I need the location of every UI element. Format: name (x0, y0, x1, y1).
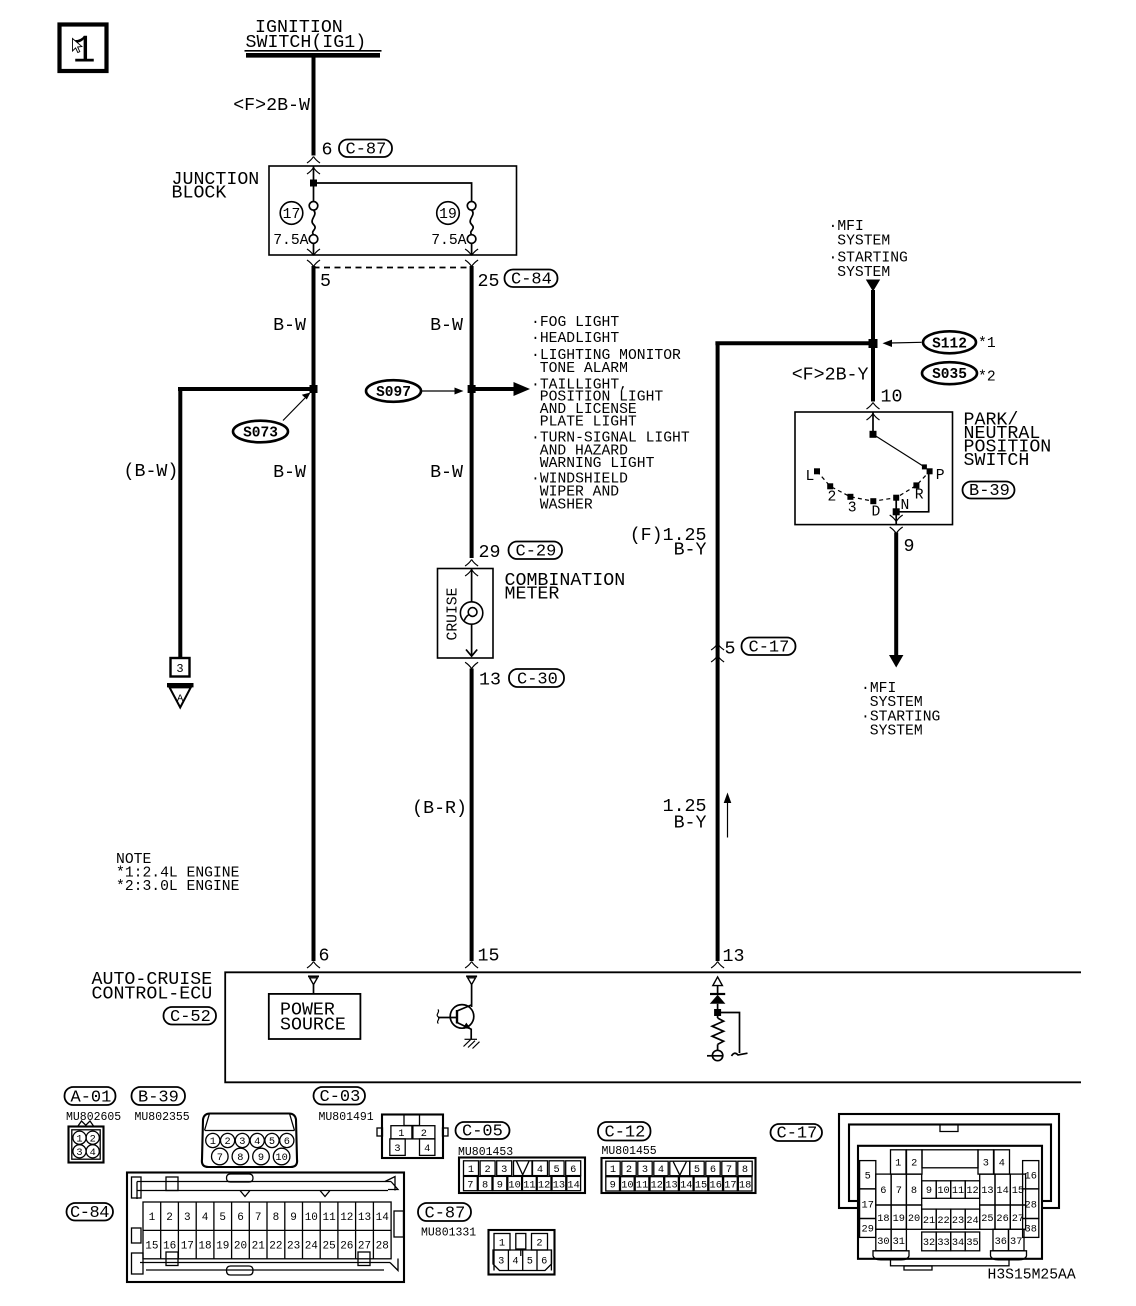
svg-text:B-Y: B-Y (674, 541, 707, 561)
svg-text:11: 11 (523, 1179, 535, 1191)
svg-text:5: 5 (320, 272, 331, 292)
svg-text:6: 6 (284, 1136, 290, 1148)
svg-text:13: 13 (723, 947, 745, 967)
svg-text:22: 22 (937, 1215, 949, 1227)
svg-text:1: 1 (149, 1212, 156, 1224)
svg-text:9: 9 (258, 1152, 264, 1164)
svg-text:5: 5 (219, 1212, 226, 1224)
svg-text:MU802355: MU802355 (135, 1111, 190, 1124)
svg-text:C-84: C-84 (511, 271, 552, 290)
svg-text:4: 4 (202, 1212, 209, 1224)
svg-text:34: 34 (952, 1237, 964, 1249)
wire N node to P contact (896, 471, 929, 512)
svg-text:METER: METER (505, 585, 560, 605)
connector B-39 drawing (202, 1114, 297, 1168)
svg-text:WARNING LIGHT: WARNING LIGHT (540, 456, 655, 472)
svg-text:3: 3 (394, 1143, 400, 1155)
svg-text:4: 4 (658, 1164, 664, 1176)
svg-text:28: 28 (376, 1241, 389, 1253)
node junction block split (310, 180, 317, 187)
svg-text:16: 16 (1025, 1171, 1037, 1183)
lighting system list (531, 315, 690, 513)
contact R (913, 482, 919, 488)
svg-text:1: 1 (210, 1136, 216, 1148)
svg-text:13: 13 (358, 1212, 371, 1224)
svg-text:17: 17 (724, 1180, 736, 1192)
svg-text:C-17: C-17 (749, 639, 790, 658)
svg-text:1: 1 (468, 1164, 474, 1176)
svg-text:PLATE LIGHT: PLATE LIGHT (540, 415, 637, 431)
svg-text:MU801491: MU801491 (319, 1111, 374, 1124)
wire B-W from fuse 19 down to combination meter (470, 266, 474, 558)
svg-text:9: 9 (290, 1212, 297, 1224)
svg-text:25: 25 (981, 1213, 993, 1225)
wire to fuse 19 (314, 183, 472, 202)
wire B-W from fuse 17 down to ECU pin 6 (312, 266, 316, 961)
svg-text:S035: S035 (932, 367, 967, 383)
feed arrow from MFI/starting system (866, 280, 880, 292)
svg-text:9: 9 (904, 537, 915, 557)
svg-text:C-05: C-05 (462, 1123, 503, 1142)
svg-text:<F>2B-Y: <F>2B-Y (792, 366, 869, 386)
svg-text:35: 35 (966, 1237, 978, 1249)
wire to transistor collector (471, 985, 473, 1007)
svg-text:*2: *2 (978, 370, 996, 386)
svg-text:H3S15M25AA: H3S15M25AA (988, 1268, 1076, 1284)
svg-text:7: 7 (896, 1185, 902, 1197)
svg-text:1: 1 (895, 1158, 901, 1170)
svg-text:C-87: C-87 (346, 141, 387, 160)
svg-text:MU802605: MU802605 (66, 1111, 121, 1124)
svg-text:3: 3 (983, 1158, 989, 1170)
svg-text:31: 31 (893, 1236, 905, 1248)
cruise indicator lamp (460, 602, 482, 624)
fuse 19 symbol (467, 202, 476, 256)
svg-text:20: 20 (234, 1241, 247, 1253)
node diode-resistor junction (714, 1009, 721, 1016)
svg-text:12: 12 (651, 1180, 663, 1192)
svg-text:5: 5 (725, 640, 736, 660)
wire (B-R) from meter to ECU pin 15 (470, 669, 474, 962)
svg-text:2: 2 (536, 1237, 542, 1249)
svg-text:25: 25 (478, 272, 500, 292)
svg-text:4: 4 (537, 1164, 543, 1176)
flow arrow in meter (466, 650, 477, 657)
wire to power source (313, 985, 315, 994)
park/neutral position switch box (795, 412, 953, 525)
svg-text:10: 10 (881, 388, 903, 408)
page number box 1 (60, 25, 107, 74)
diode D1 (710, 986, 726, 1018)
svg-text:10: 10 (621, 1180, 633, 1192)
svg-text:7.5A: 7.5A (273, 233, 308, 249)
svg-text:11: 11 (952, 1185, 964, 1197)
connector C-84 drawing (127, 1173, 404, 1283)
svg-text:13: 13 (479, 671, 501, 691)
junction block box (269, 166, 517, 255)
svg-text:19: 19 (893, 1213, 905, 1225)
svg-text:13: 13 (665, 1180, 677, 1192)
node S097 junction (468, 385, 476, 393)
connector C-29 label (509, 542, 563, 562)
splice S073 pointer arrow (283, 393, 311, 421)
svg-text:32: 32 (923, 1237, 935, 1249)
MFI/starting system list (bottom) (861, 681, 940, 740)
svg-text:2: 2 (166, 1212, 173, 1224)
note block (116, 852, 240, 895)
svg-text:17: 17 (283, 207, 301, 223)
svg-text:2: 2 (626, 1164, 632, 1176)
svg-text:B-Y: B-Y (674, 814, 707, 834)
power source box (269, 994, 361, 1039)
svg-text:C-52: C-52 (170, 1008, 211, 1027)
fuse 17 symbol (309, 202, 318, 256)
svg-text:SYSTEM: SYSTEM (837, 234, 890, 250)
connector A-01 drawing (69, 1121, 104, 1163)
svg-text:3: 3 (642, 1164, 648, 1176)
svg-text:S073: S073 (243, 426, 278, 442)
svg-text:26: 26 (340, 1241, 353, 1253)
svg-text:10: 10 (275, 1152, 287, 1164)
svg-text:<F>2B-W: <F>2B-W (233, 96, 310, 116)
flow direction arrow (724, 793, 732, 838)
connector B-39 label (132, 1087, 186, 1108)
connector C-84 label (67, 1203, 114, 1223)
wire branch to internal circuit (718, 1013, 740, 1054)
svg-text:29: 29 (479, 543, 501, 563)
node S112 junction (869, 339, 878, 348)
svg-text:WASHER: WASHER (540, 497, 593, 513)
output triangle pin 13 (713, 977, 723, 986)
wire branch to ground A (178, 389, 180, 658)
svg-text:28: 28 (1025, 1199, 1037, 1211)
svg-text:C-17: C-17 (777, 1125, 818, 1144)
MFI/starting system source list (top right) (829, 219, 908, 281)
svg-text:12: 12 (340, 1212, 353, 1224)
svg-text:B-W: B-W (430, 316, 463, 336)
svg-text:13: 13 (981, 1185, 993, 1197)
svg-text:1: 1 (398, 1128, 404, 1140)
fuse number 17 circle (280, 202, 303, 225)
connector crossing C-30 pin 13 (465, 662, 478, 669)
svg-text:(B-R): (B-R) (412, 799, 467, 819)
svg-text:*1: *1 (978, 336, 996, 352)
svg-text:29: 29 (862, 1224, 874, 1236)
svg-text:3: 3 (501, 1164, 507, 1176)
svg-text:17: 17 (181, 1241, 194, 1253)
connector B-39 label (963, 482, 1015, 502)
transistor Q1 (437, 1005, 474, 1040)
connector crossing ECU pin 13 (711, 962, 724, 969)
connector crossing C-17 pin 5 (711, 644, 724, 651)
svg-text:12: 12 (538, 1179, 550, 1191)
svg-text:C-87: C-87 (425, 1205, 466, 1224)
svg-text:C-12: C-12 (605, 1124, 646, 1143)
svg-text:24: 24 (966, 1215, 978, 1227)
svg-text:SYSTEM: SYSTEM (870, 724, 923, 740)
connector C-12 label (598, 1122, 651, 1143)
svg-text:6: 6 (710, 1164, 716, 1176)
svg-text:4: 4 (90, 1147, 96, 1159)
svg-text:10: 10 (508, 1179, 520, 1191)
svg-text:16: 16 (710, 1180, 722, 1192)
auto-cruise control ECU box (225, 972, 1081, 1082)
svg-text:D: D (872, 505, 881, 521)
park/neutral position switch label (964, 411, 1052, 472)
svg-text:8: 8 (911, 1185, 917, 1197)
svg-text:C-30: C-30 (517, 671, 558, 690)
svg-text:4: 4 (999, 1158, 1005, 1170)
connector crossing ECU pin 6 (307, 962, 320, 969)
svg-text:3: 3 (76, 1147, 82, 1159)
svg-text:6: 6 (319, 947, 330, 967)
svg-text:BLOCK: BLOCK (172, 184, 227, 204)
svg-text:TONE ALARM: TONE ALARM (540, 361, 628, 377)
svg-text:33: 33 (937, 1237, 949, 1249)
connector C-03 label (314, 1087, 366, 1107)
input triangle pin 6 (308, 976, 319, 984)
svg-text:3: 3 (498, 1256, 504, 1268)
feed arrow to lighting systems (472, 382, 530, 396)
svg-text:18: 18 (739, 1180, 751, 1192)
transistor emitter ground hatch (464, 1039, 480, 1048)
wire into cruise lamp (471, 569, 473, 603)
svg-text:S097: S097 (376, 385, 411, 401)
svg-text:1: 1 (76, 1133, 82, 1145)
svg-text:B-39: B-39 (138, 1089, 179, 1108)
svg-text:8: 8 (482, 1179, 488, 1191)
wire ignition to junction block (F)2B-W (312, 55, 316, 156)
svg-text:27: 27 (358, 1241, 371, 1253)
svg-text:20: 20 (908, 1213, 920, 1225)
svg-text:B-W: B-W (273, 316, 306, 336)
svg-text:25: 25 (322, 1241, 335, 1253)
svg-text:6: 6 (541, 1256, 547, 1268)
connector crossing C-84 pin 5 (307, 249, 320, 256)
connector crossing C-87 (307, 157, 320, 164)
arrow to MFI/starting system (889, 655, 903, 668)
svg-text:3: 3 (239, 1136, 245, 1148)
svg-text:6: 6 (570, 1164, 576, 1176)
svg-text:6: 6 (237, 1212, 244, 1224)
splice S073 (233, 421, 288, 443)
switch common wire (872, 412, 874, 434)
svg-text:14: 14 (567, 1179, 579, 1191)
svg-text:21: 21 (923, 1215, 935, 1227)
svg-text:8: 8 (742, 1164, 748, 1176)
svg-text:5: 5 (865, 1171, 871, 1183)
splice S097 pointer arrow (422, 388, 464, 395)
svg-text:S112: S112 (932, 336, 967, 352)
svg-text:9: 9 (497, 1179, 503, 1191)
svg-text:24: 24 (305, 1241, 319, 1253)
svg-text:22: 22 (269, 1241, 282, 1253)
internal circuit stub (732, 1053, 748, 1056)
svg-text:CRUISE: CRUISE (446, 587, 462, 640)
svg-text:3: 3 (848, 501, 857, 517)
connector crossing C-84 pin 25 (465, 249, 478, 256)
connector crossing into park/neutral switch (867, 403, 880, 410)
svg-text:A-01: A-01 (71, 1089, 112, 1108)
switch movable contact arm (873, 434, 924, 467)
svg-text:9: 9 (926, 1185, 932, 1197)
connector crossing out of switch pin 9 (890, 515, 903, 522)
wire out of cruise lamp (471, 624, 473, 656)
connector C-17 drawing (839, 1114, 1059, 1270)
connector C-03 drawing (377, 1115, 448, 1159)
ignition switch (IG1) source label (245, 18, 382, 55)
svg-text:1: 1 (499, 1237, 505, 1249)
svg-text:23: 23 (287, 1241, 300, 1253)
svg-text:4: 4 (254, 1136, 260, 1148)
svg-text:30: 30 (877, 1236, 889, 1248)
svg-text:23: 23 (952, 1215, 964, 1227)
terminal 3 box (ground lead) (171, 658, 190, 677)
connector C-52 label (164, 1007, 217, 1027)
node S073 junction (310, 385, 318, 393)
svg-text:·FOG LIGHT: ·FOG LIGHT (531, 315, 619, 331)
connector C-30 label (509, 669, 564, 690)
svg-text:B-W: B-W (273, 463, 306, 483)
connector C-84 label (505, 270, 558, 290)
svg-text:7: 7 (255, 1212, 262, 1224)
svg-text:SOURCE: SOURCE (280, 1016, 346, 1036)
connector C-87 label (418, 1203, 471, 1224)
svg-text:11: 11 (322, 1212, 336, 1224)
connector C-05 label (456, 1122, 510, 1142)
svg-text:2: 2 (911, 1158, 917, 1170)
contact N (893, 495, 899, 501)
terminal circle (707, 1050, 723, 1060)
svg-text:P: P (936, 468, 945, 484)
connector crossing C-29 pin 29 (465, 560, 478, 567)
svg-text:3: 3 (176, 662, 183, 676)
svg-text:8: 8 (237, 1152, 243, 1164)
svg-text:7: 7 (467, 1179, 473, 1191)
svg-text:MU801331: MU801331 (421, 1227, 476, 1240)
svg-text:19: 19 (216, 1241, 229, 1253)
svg-text:SWITCH: SWITCH (964, 451, 1030, 471)
contact letters (806, 468, 945, 521)
svg-text:21: 21 (252, 1241, 266, 1253)
ground symbol A (167, 683, 194, 708)
svg-text:10: 10 (937, 1185, 949, 1197)
svg-text:9: 9 (610, 1180, 616, 1192)
contact 3 (847, 494, 853, 500)
svg-text:12: 12 (966, 1185, 978, 1197)
connector C-17 label (742, 638, 796, 658)
svg-text:1: 1 (610, 1164, 616, 1176)
svg-text:C-03: C-03 (320, 1088, 361, 1107)
contact D (870, 498, 876, 504)
splice S112 (923, 331, 976, 353)
connector C-84 dashed boundary (314, 267, 472, 269)
svg-text:18: 18 (198, 1241, 211, 1253)
svg-text:14: 14 (996, 1185, 1008, 1197)
svg-text:R: R (915, 487, 924, 503)
svg-text:5: 5 (269, 1136, 275, 1148)
svg-text:SYSTEM: SYSTEM (837, 265, 890, 281)
svg-text:CONTROL-ECU: CONTROL-ECU (92, 985, 213, 1005)
svg-text:7.5A: 7.5A (431, 233, 466, 249)
connector C-17 label (771, 1124, 823, 1144)
svg-text:10: 10 (305, 1212, 318, 1224)
splice S112 pointer arrow (883, 340, 922, 347)
splice S097 (366, 380, 421, 402)
svg-text:A: A (177, 693, 184, 705)
dashed gate arc (817, 471, 930, 501)
switch pivot node (870, 431, 877, 438)
svg-text:5: 5 (554, 1164, 560, 1176)
input triangle pin 15 (466, 976, 477, 984)
svg-text:7: 7 (217, 1152, 223, 1164)
svg-text:19: 19 (439, 207, 457, 223)
svg-text:15: 15 (145, 1241, 158, 1253)
svg-text:26: 26 (996, 1213, 1008, 1225)
svg-text:C-84: C-84 (70, 1204, 110, 1223)
svg-text:4: 4 (512, 1256, 518, 1268)
svg-text:37: 37 (1010, 1236, 1022, 1248)
svg-text:2: 2 (485, 1164, 491, 1176)
connector C-05 drawing (459, 1158, 585, 1194)
svg-text:MU801455: MU801455 (602, 1145, 657, 1158)
connector A-01 label (65, 1087, 116, 1108)
node N branch (893, 508, 900, 515)
svg-text:15: 15 (695, 1180, 707, 1192)
svg-text:38: 38 (1025, 1224, 1037, 1236)
svg-text:L: L (806, 469, 815, 485)
svg-text:B-W: B-W (430, 463, 463, 483)
wire N contact to output (895, 498, 897, 525)
svg-text:1: 1 (72, 30, 95, 74)
svg-text:5: 5 (527, 1256, 533, 1268)
wire 1.25 B-Y down to ECU pin 13 (716, 343, 720, 961)
svg-text:5: 5 (694, 1164, 700, 1176)
contact 2 (827, 483, 833, 489)
svg-text:17: 17 (862, 1199, 874, 1211)
svg-text:11: 11 (636, 1180, 648, 1192)
svg-text:*2:3.0L ENGINE: *2:3.0L ENGINE (116, 879, 240, 895)
resistor R1 (712, 1018, 724, 1044)
svg-text:4: 4 (424, 1143, 430, 1155)
wire to MFI/starting system (894, 533, 898, 656)
svg-text:7: 7 (726, 1164, 732, 1176)
svg-text:·HEADLIGHT: ·HEADLIGHT (531, 331, 619, 347)
wire inside junction block (313, 166, 315, 202)
svg-text:16: 16 (163, 1241, 176, 1253)
fuse number 19 circle (437, 202, 460, 225)
svg-text:6: 6 (322, 141, 333, 161)
svg-text:15: 15 (478, 947, 500, 967)
wire branch to ECU pin 13 (715, 341, 873, 345)
connector C-87 label (339, 140, 392, 160)
svg-text:(B-W): (B-W) (124, 462, 179, 482)
wire to sensor terminal (717, 1044, 719, 1050)
svg-text:3: 3 (184, 1212, 191, 1224)
svg-text:6: 6 (880, 1185, 886, 1197)
wire 2B-Y down to park/neutral switch (871, 290, 875, 402)
contact P (927, 468, 933, 474)
connector C-87 drawing (489, 1230, 555, 1275)
svg-text:2: 2 (828, 489, 837, 505)
svg-text:8: 8 (273, 1212, 280, 1224)
svg-text:36: 36 (995, 1236, 1007, 1248)
contact L (814, 468, 820, 474)
splice S035 (922, 362, 977, 384)
svg-text:C-29: C-29 (516, 543, 557, 562)
svg-text:14: 14 (376, 1212, 390, 1224)
svg-text:B-39: B-39 (969, 482, 1010, 501)
